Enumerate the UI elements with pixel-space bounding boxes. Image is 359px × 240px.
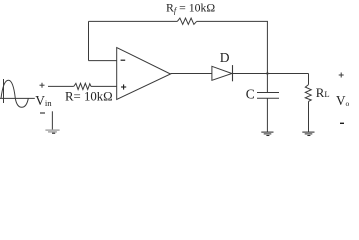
op-amp minus sign — [121, 59, 126, 61]
wire RL top stem — [308, 74, 310, 85]
wire diode to RL corner — [232, 73, 308, 75]
wire source to resistor R — [48, 85, 74, 87]
output plus sign — [339, 73, 344, 78]
node junction capacitor — [266, 72, 268, 74]
output minus sign — [340, 122, 344, 124]
svg-text:R= 10kΩ: R= 10kΩ — [65, 90, 113, 104]
svg-text:Rf = 10kΩ: Rf = 10kΩ — [166, 1, 215, 16]
source plus terminal — [40, 83, 45, 88]
op-amp U1 triangle — [117, 48, 171, 100]
svg-text:Vo: Vo — [336, 93, 350, 108]
diode D triangle — [212, 66, 232, 80]
wire op-amp output to diode — [171, 73, 212, 75]
wire junction to capacitor top plate — [266, 74, 268, 93]
wire capacitor bottom plate to ground — [266, 98, 268, 132]
svg-text:Vin: Vin — [35, 93, 52, 108]
ground (RL) — [302, 132, 314, 135]
wire feedback left vertical — [88, 21, 90, 60]
ground (source) — [45, 130, 59, 133]
svg-text:RL: RL — [316, 86, 330, 100]
source minus terminal — [40, 112, 45, 114]
diode D cathode bar — [232, 65, 234, 81]
ground (capacitor) — [261, 132, 273, 135]
wire source ground stem — [51, 111, 53, 129]
wire RL bottom stem — [308, 101, 310, 131]
wire op-amp minus input — [89, 60, 117, 62]
source sine waveform symbol — [0, 79, 35, 107]
wire feedback top right segment — [197, 20, 268, 22]
wire feedback right vertical — [266, 21, 268, 73]
resistor RL zigzag — [305, 85, 311, 102]
svg-text:C: C — [246, 87, 255, 102]
wire feedback top left segment — [89, 20, 178, 22]
op-amp plus sign — [121, 84, 126, 89]
resistor Rf zigzag — [177, 18, 196, 24]
svg-text:D: D — [220, 50, 230, 65]
capacitor C plates — [257, 93, 279, 99]
resistor R zigzag — [74, 83, 91, 89]
wire resistor R to op-amp plus input — [91, 85, 117, 87]
